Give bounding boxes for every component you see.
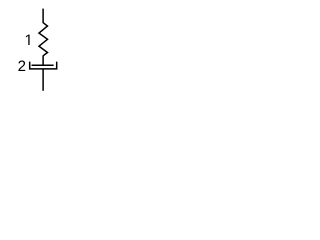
wire [42,69,44,91]
wire [42,9,44,23]
wire [42,56,44,66]
resistor 1 [39,23,48,56]
capacitor 2 top plate [32,64,54,66]
label 1 [26,35,30,45]
capacitor 2 bottom plate (open box) [30,62,57,69]
label 2 [18,61,25,71]
